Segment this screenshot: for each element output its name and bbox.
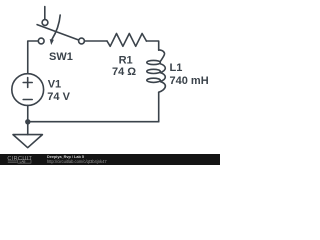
svg-text:V1: V1 — [48, 79, 61, 91]
svg-text:L1: L1 — [170, 62, 183, 74]
svg-text:LAB: LAB — [20, 160, 26, 164]
svg-text:R1: R1 — [119, 54, 133, 66]
svg-text:740 mH: 740 mH — [170, 75, 209, 87]
svg-text:74 V: 74 V — [47, 91, 70, 103]
svg-text:74 Ω: 74 Ω — [112, 66, 136, 78]
svg-text:SW1: SW1 — [49, 51, 73, 63]
